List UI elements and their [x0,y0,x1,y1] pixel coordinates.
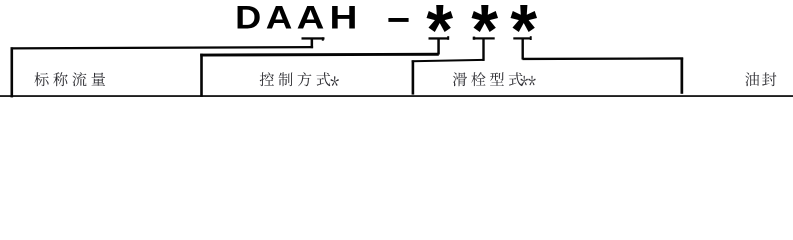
title letter A [297,0,325,35]
wire: bracket 1 vertical [11,47,14,97]
svg-text:A: A [266,1,293,36]
label 滑栓型式 [453,72,523,86]
wire: drop from asterisk 1 tick [437,39,440,55]
wire: bracket 1 horizontal [11,46,314,50]
tick under asterisk 3 [513,36,531,40]
label 标称流量 [34,72,105,86]
wire: drop from asterisk 3 tick [522,39,524,60]
wire: drop from second A tick [311,39,314,48]
label star after 控制方式 [331,76,339,86]
wire: bracket 3 vertical [412,60,415,94]
tick under asterisk 2 [473,37,495,40]
svg-text:D: D [235,0,261,36]
label star pair after 滑栓型式 [521,76,528,86]
label 油封 [745,72,776,86]
svg-text:A: A [297,0,325,35]
wire: bracket 2 horizontal [200,53,439,57]
title asterisk 3 [511,5,537,32]
title letter H [330,0,358,36]
wire: bracket 3 horizontal [412,59,484,62]
title letter A [266,1,293,36]
title letter D [235,0,261,36]
wire: bracket 4 horizontal [523,57,684,60]
title asterisk 1 [427,5,453,32]
label 控制方式 [260,72,331,86]
bottom rule [0,95,793,97]
svg-text:H: H [330,0,358,36]
wire: bracket 2 vertical [200,54,203,97]
tick under asterisk 1 [429,36,450,40]
title asterisk 2 [472,5,498,32]
dash [388,18,408,22]
wire: drop from asterisk 2 tick [482,39,484,61]
tick under second A [302,37,325,40]
wire: bracket 4 vertical [681,58,684,94]
